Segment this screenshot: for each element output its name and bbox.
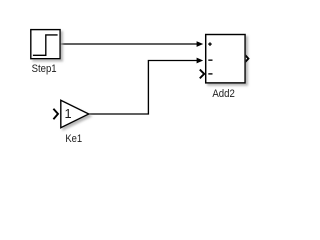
svg-text:1: 1 bbox=[64, 106, 71, 121]
svg-text:Step1: Step1 bbox=[32, 63, 57, 75]
svg-text:Add2: Add2 bbox=[212, 88, 235, 100]
svg-text:Ke1: Ke1 bbox=[65, 133, 82, 145]
